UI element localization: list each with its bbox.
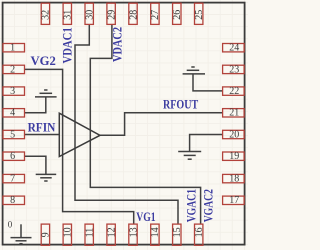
svg-text:28: 28 <box>128 10 139 20</box>
svg-text:VG1: VG1 <box>136 209 155 224</box>
svg-text:3: 3 <box>10 86 15 97</box>
svg-text:18: 18 <box>229 174 239 185</box>
svg-text:VGAC1: VGAC1 <box>184 189 199 222</box>
svg-text:32: 32 <box>41 10 52 20</box>
svg-text:7: 7 <box>10 174 15 185</box>
svg-text:25: 25 <box>194 10 205 20</box>
svg-text:22: 22 <box>229 86 239 97</box>
svg-text:10: 10 <box>63 227 74 237</box>
svg-text:6: 6 <box>10 151 15 162</box>
svg-text:29: 29 <box>106 10 117 20</box>
svg-text:27: 27 <box>150 10 161 20</box>
svg-text:9: 9 <box>41 232 52 237</box>
svg-text:16: 16 <box>194 227 205 237</box>
svg-text:4: 4 <box>10 108 15 119</box>
svg-text:0: 0 <box>8 219 13 229</box>
svg-text:1: 1 <box>10 43 15 54</box>
svg-text:VDAC1: VDAC1 <box>60 27 75 63</box>
svg-text:8: 8 <box>10 195 15 206</box>
svg-text:19: 19 <box>229 151 239 162</box>
svg-text:31: 31 <box>63 10 74 20</box>
svg-text:VDAC2: VDAC2 <box>110 27 125 62</box>
svg-text:15: 15 <box>172 227 183 237</box>
svg-text:VG2: VG2 <box>31 53 56 68</box>
svg-text:17: 17 <box>229 195 239 206</box>
svg-text:RFIN: RFIN <box>28 120 56 135</box>
svg-text:23: 23 <box>229 64 239 75</box>
svg-text:13: 13 <box>128 227 139 237</box>
svg-text:11: 11 <box>85 228 96 238</box>
svg-text:RFOUT: RFOUT <box>163 96 198 111</box>
svg-text:14: 14 <box>150 227 161 237</box>
svg-text:2: 2 <box>10 64 15 75</box>
svg-text:5: 5 <box>10 129 15 140</box>
svg-text:30: 30 <box>85 10 96 20</box>
svg-text:VGAC2: VGAC2 <box>201 189 216 222</box>
svg-text:21: 21 <box>229 108 239 119</box>
svg-text:20: 20 <box>229 129 239 140</box>
svg-text:24: 24 <box>229 43 239 54</box>
svg-text:26: 26 <box>172 10 183 20</box>
svg-text:12: 12 <box>106 227 117 237</box>
